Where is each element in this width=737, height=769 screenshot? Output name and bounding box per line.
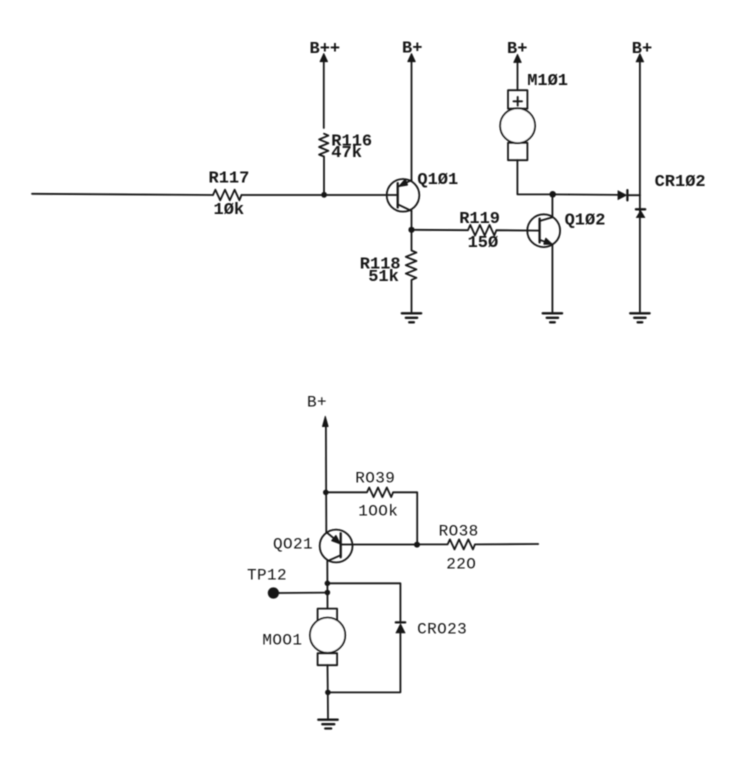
resistor R038 bbox=[417, 539, 538, 549]
wire node to diode bbox=[553, 193, 618, 196]
node at R039 tap bbox=[323, 490, 329, 496]
svg-text:CRO23: CRO23 bbox=[417, 620, 467, 638]
diode CR023 bbox=[396, 620, 467, 638]
svg-text:22O: 22O bbox=[446, 555, 476, 573]
transistor Q102 bbox=[527, 212, 605, 247]
svg-text:15Ø: 15Ø bbox=[468, 234, 499, 253]
power B+ (Q101) bbox=[408, 54, 415, 62]
svg-text:MOO1: MOO1 bbox=[262, 631, 302, 649]
svg-text:RO39: RO39 bbox=[355, 470, 395, 488]
motor M101 bbox=[500, 72, 568, 160]
diode (series, horizontal) bbox=[618, 190, 640, 200]
resistor R116 bbox=[319, 134, 328, 195]
wire Q101 collector to node bbox=[411, 211, 413, 230]
node to CR023 branch bbox=[325, 581, 331, 587]
node at R038/R039/base junction bbox=[414, 542, 420, 548]
wire M001 to ground bbox=[327, 665, 330, 719]
svg-text:B++: B++ bbox=[310, 40, 341, 59]
wire B+ down to Q021 bbox=[325, 426, 327, 533]
transistor Q101 bbox=[387, 171, 459, 212]
motor M001 bbox=[262, 609, 345, 666]
power B+ (M101) bbox=[514, 54, 521, 62]
test point TP12 bbox=[247, 566, 327, 598]
svg-text:B+: B+ bbox=[507, 40, 527, 59]
svg-text:B+: B+ bbox=[307, 394, 327, 412]
wire left input bbox=[32, 194, 213, 195]
node at Q102 collector junction bbox=[549, 191, 556, 198]
svg-text:CR1Ø2: CR1Ø2 bbox=[655, 173, 706, 192]
ground (bottom circuit) bbox=[318, 720, 337, 729]
node to TP12 bbox=[325, 590, 331, 596]
power B+ (bottom circuit) bbox=[323, 416, 329, 426]
svg-text:Q1Ø2: Q1Ø2 bbox=[565, 212, 606, 231]
wire Q021 collector down bbox=[326, 561, 328, 608]
ground below Q102 bbox=[543, 313, 562, 322]
wire Q101 emitter to B+ bbox=[411, 61, 413, 180]
svg-text:B+: B+ bbox=[632, 40, 652, 59]
wire R117 to Q101 base bbox=[242, 194, 398, 196]
transistor Q021 bbox=[273, 530, 353, 563]
wire Q102 collector to node bbox=[551, 194, 553, 217]
wire B+ to CR102 to ground bbox=[639, 61, 641, 311]
svg-text:47k: 47k bbox=[331, 144, 362, 163]
resistor R039 bbox=[326, 488, 417, 542]
svg-text:1Øk: 1Øk bbox=[214, 201, 245, 220]
wire to CR023 bbox=[327, 583, 400, 621]
svg-text:QO21: QO21 bbox=[273, 536, 313, 554]
wire CR023 to ground wire bbox=[328, 633, 401, 692]
resistor R118 bbox=[406, 230, 417, 312]
node at R116/R117 junction bbox=[321, 192, 327, 198]
wire M101 to B+ bbox=[517, 62, 519, 90]
svg-text:M1Ø1: M1Ø1 bbox=[527, 72, 568, 91]
resistor R117 bbox=[213, 190, 242, 201]
wire Q021 base to node bbox=[341, 544, 418, 546]
svg-text:RO38: RO38 bbox=[439, 522, 479, 540]
svg-text:R119: R119 bbox=[459, 210, 500, 229]
ground below CR102 bbox=[630, 313, 649, 322]
svg-text:1OOk: 1OOk bbox=[358, 502, 398, 520]
wire R116 to B++ bbox=[323, 61, 325, 128]
svg-text:TP12: TP12 bbox=[247, 566, 287, 584]
node at ground junction bbox=[325, 690, 331, 696]
resistor R119 bbox=[412, 225, 540, 236]
wire Q102 emitter to ground bbox=[551, 244, 553, 311]
node at Q101 collector bbox=[408, 227, 414, 233]
power B++ bbox=[320, 54, 327, 62]
svg-text:51k: 51k bbox=[368, 268, 399, 287]
power B+ (CR102) bbox=[636, 54, 643, 62]
ground below R118 bbox=[402, 313, 421, 322]
wire M101 to node bbox=[517, 160, 552, 194]
svg-text:Q1Ø1: Q1Ø1 bbox=[417, 171, 458, 190]
svg-text:B+: B+ bbox=[402, 40, 422, 59]
diode CR102 (vertical) bbox=[636, 173, 706, 218]
svg-text:R117: R117 bbox=[209, 170, 250, 189]
